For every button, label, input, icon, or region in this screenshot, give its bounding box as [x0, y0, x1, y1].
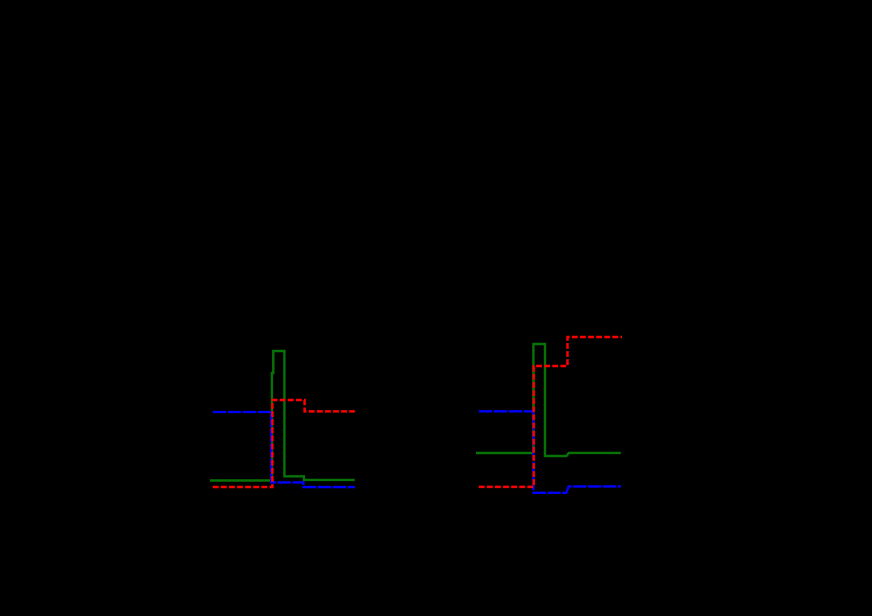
- left plot blue dashed step curve: [213, 412, 355, 487]
- right plot red dashed step curve: [479, 337, 622, 487]
- left plot red dashed step curve: [213, 400, 355, 487]
- right plot blue dashed step curve: [479, 411, 621, 493]
- right plot green impulse curve: [476, 344, 621, 456]
- left plot green impulse curve: [210, 351, 355, 481]
